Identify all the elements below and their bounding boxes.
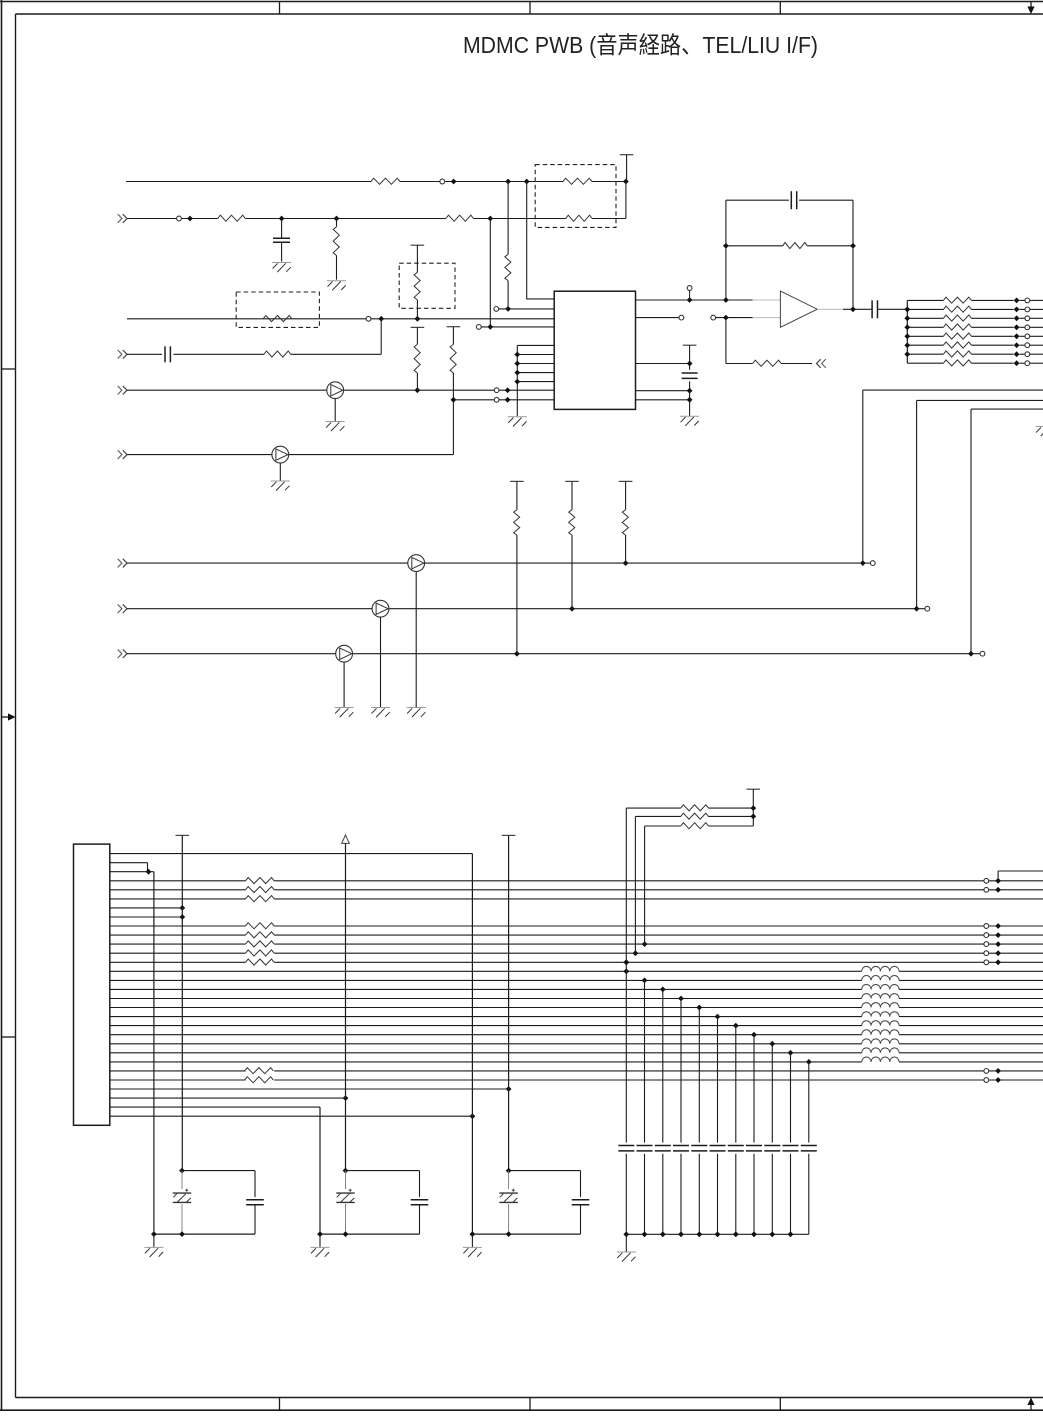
junction out1 / feedback xyxy=(723,297,729,303)
junction cap bus 1 xyxy=(623,1231,629,1237)
capacitor C8 drop xyxy=(637,1145,653,1147)
junction row10 right xyxy=(995,932,1001,938)
capacitor C10 drop xyxy=(673,1145,689,1147)
pad circle row25 xyxy=(984,1069,989,1074)
junction bank row 6 xyxy=(1014,342,1020,348)
capacitor C22 electrolytic sub3 xyxy=(508,1171,510,1189)
resistor R38 in riser1 xyxy=(505,254,511,280)
junction row18 / cap drop xyxy=(696,1005,702,1011)
wire row28 xyxy=(110,1097,346,1099)
resistor R8 vertical xyxy=(416,245,418,272)
power terminal pull-up R23 xyxy=(565,480,579,482)
wire bank row 3 xyxy=(907,317,943,319)
wire pull common xyxy=(752,789,754,826)
junction row27 / rail F xyxy=(506,1086,512,1092)
junction bank row 7 xyxy=(1014,351,1020,357)
resistor R25 row4 xyxy=(246,878,275,884)
wire pin2 line xyxy=(499,308,555,310)
wire row12 xyxy=(110,952,246,954)
resistor R5 in DB1 xyxy=(563,178,592,184)
pad circle opamp minus xyxy=(711,315,716,320)
ground below Q2 xyxy=(279,463,281,481)
wire sub3 bottom line xyxy=(472,1233,580,1235)
junction bus row 3 xyxy=(904,315,910,321)
resistor R2 on wire B xyxy=(218,215,246,221)
resistor R36 xyxy=(681,813,709,819)
junction bank row 4 xyxy=(1014,324,1020,330)
connector CN1 body xyxy=(74,844,110,1125)
pad circle out2 stub xyxy=(679,315,684,320)
junction pin4 / riser xyxy=(487,324,493,330)
junction cluster 4 xyxy=(514,370,520,376)
junction row20 / cap drop xyxy=(733,1023,739,1029)
junction sub1 bottom left xyxy=(151,1231,157,1237)
op-amp U2 xyxy=(780,291,817,327)
pad circle row10 xyxy=(984,933,989,938)
pad circle G corner xyxy=(870,561,875,566)
junction H corner xyxy=(914,606,920,612)
junction row24 / cap drop xyxy=(806,1059,812,1065)
pad circle on wire E xyxy=(494,388,499,393)
resistor R14 bank xyxy=(943,297,971,303)
junction bus row 2 xyxy=(904,307,910,313)
pad circle on wire B xyxy=(177,216,182,221)
wire row1 (rail A feed) xyxy=(110,853,473,855)
wire row3 stub xyxy=(110,871,154,873)
pad circle bank row 5 xyxy=(1025,334,1030,339)
buffer Q5 on wire I xyxy=(336,645,353,662)
junction wire A / riser1 xyxy=(505,179,511,185)
junction H / pullup xyxy=(569,606,575,612)
junction row22 / cap drop xyxy=(769,1041,775,1047)
resistor R11 vertical to wire F xyxy=(447,326,461,328)
input chevron wire H xyxy=(118,604,122,613)
ferrite bead FB4 row17 xyxy=(862,994,899,999)
buffer Q2 on wire F xyxy=(272,446,289,463)
wire net G xyxy=(127,562,408,564)
junction wire F corner xyxy=(451,397,457,403)
ground GND-U1L xyxy=(508,416,527,418)
wire drop3 (x644) xyxy=(644,826,646,944)
wire row15 xyxy=(110,979,862,981)
junction pull row1 xyxy=(750,805,756,811)
wire bank row 8 xyxy=(907,362,943,364)
junction cap bus 8 xyxy=(751,1231,757,1237)
resistor R17 bank xyxy=(943,324,971,330)
resistor R35 xyxy=(681,805,709,811)
capacitor C12 drop xyxy=(710,1145,726,1147)
wire pull row1 xyxy=(626,807,681,809)
ferrite bead FB1 row14 xyxy=(862,966,899,971)
junction feedback mid left xyxy=(723,243,729,249)
wire cap drop 5 xyxy=(698,1008,700,1143)
junction row4 xyxy=(995,878,1001,884)
pad circle I corner xyxy=(980,651,985,656)
junction row25 right xyxy=(995,1068,1001,1074)
junction wire A / net V1 xyxy=(623,179,629,185)
junction cap bus 3 xyxy=(660,1231,666,1237)
resistor R19 bank xyxy=(943,342,971,348)
wire pin4 line xyxy=(481,326,554,328)
capacitor C6 output series xyxy=(871,300,873,318)
wire drop1 (x626) xyxy=(625,808,627,971)
junction wire C / riser D xyxy=(378,316,384,322)
junction row11 / drop3 xyxy=(642,941,648,947)
dashed box DB2 xyxy=(399,263,455,308)
wire row4 xyxy=(110,880,246,882)
wire row2 xyxy=(110,862,148,864)
pad circle row5 xyxy=(984,887,989,892)
border zone tick top 3 xyxy=(779,2,781,15)
wire IC ground bus left xyxy=(516,345,518,416)
resistor R7 on wire C xyxy=(263,316,292,322)
junction row5 xyxy=(995,887,1001,893)
wire pin cluster line 1 xyxy=(517,344,554,346)
capacitor C4 on V2 xyxy=(682,372,698,374)
wire row26 xyxy=(110,1079,246,1081)
wire sub1 top line xyxy=(182,1170,255,1172)
resistor R10 vertical to wire E xyxy=(411,326,425,328)
junction row26 right xyxy=(995,1077,1001,1083)
resistor R13 divider xyxy=(753,360,782,366)
wire row9 xyxy=(110,925,246,927)
wire rail A (gnd1) xyxy=(153,872,155,1234)
wire net H xyxy=(127,608,372,610)
wire row18 xyxy=(110,1007,862,1009)
wire bank row 4 xyxy=(907,326,943,328)
pad circle row9 xyxy=(984,924,989,929)
junction row13 / drop1 xyxy=(623,959,629,965)
border inner frame xyxy=(16,13,1043,15)
capacitor C23 ceramic sub3 xyxy=(572,1199,590,1201)
junction bank row 8 xyxy=(1014,360,1020,366)
junction cap bus 5 xyxy=(696,1231,702,1237)
ground partial right edge xyxy=(1036,426,1043,428)
wire feedback right vertical xyxy=(852,200,854,309)
wire cap drop 4 xyxy=(680,999,682,1143)
ferrite bead FB8 row21 xyxy=(862,1030,899,1035)
wire net F segments xyxy=(127,454,272,456)
junction row19 / cap drop xyxy=(715,1014,721,1020)
junction row7 / rail B xyxy=(179,905,185,911)
power terminal rail F xyxy=(502,834,516,836)
pad circle bank row 2 xyxy=(1025,307,1030,312)
pad circle bank row 1 xyxy=(1025,298,1030,303)
junction bank row 1 xyxy=(1014,298,1020,304)
wire row11 xyxy=(110,943,246,945)
ground GND sub1 xyxy=(153,1234,155,1247)
junction pin2 / riser1 xyxy=(505,306,511,312)
border zone tick top 1 xyxy=(279,2,281,15)
input chevron wire B xyxy=(118,214,122,223)
capacitor C17 drop xyxy=(801,1145,817,1147)
wire pull row2 xyxy=(635,815,680,817)
border zone tick bottom 3 xyxy=(779,1398,781,1411)
resistor R9 on wire D xyxy=(264,351,291,357)
wire bank row 7 xyxy=(907,353,943,355)
junction cap bus 2 xyxy=(642,1231,648,1237)
border zone tick bottom 2 xyxy=(529,1398,531,1411)
input chevron wire E xyxy=(118,386,122,395)
wire drop2 (x635) xyxy=(634,816,636,953)
junction bank row 2 xyxy=(1014,307,1020,313)
junction pull row2 xyxy=(750,814,756,820)
ferrite bead FB5 row18 xyxy=(862,1003,899,1008)
wire net E segments xyxy=(127,389,327,391)
resistor R34 row26 xyxy=(245,1077,274,1083)
pad circle on wire C xyxy=(366,316,371,321)
wire row24 xyxy=(110,1061,862,1063)
pad circle bank row 8 xyxy=(1025,361,1030,366)
wire row10 xyxy=(110,934,246,936)
junction output / feedback xyxy=(850,306,856,312)
junction row15 / cap drop xyxy=(642,978,648,984)
border zone arrow top-right xyxy=(1030,2,1032,10)
resistor R6 in DB1 xyxy=(566,215,592,221)
junction cap bus 4 xyxy=(678,1231,684,1237)
wire net V2 vertical xyxy=(689,345,691,370)
resistor R20 bank xyxy=(943,351,971,357)
wire row8 xyxy=(110,916,183,918)
resistor R22 pull-up xyxy=(516,481,518,509)
resistor R28 row9 xyxy=(246,923,275,929)
wire net A segments xyxy=(126,181,371,183)
junction row28 / rail E xyxy=(343,1095,349,1101)
power flag delta rail E xyxy=(342,835,350,844)
capacitor C20 electrolytic sub2 xyxy=(345,1171,347,1189)
capacitor C5 feedback xyxy=(790,191,792,209)
junction sub2 top xyxy=(343,1168,349,1174)
ground GND sub2 xyxy=(319,1234,321,1247)
ground GND sub3 xyxy=(471,1234,473,1247)
border outer frame xyxy=(0,1,1043,3)
wire cap drop 2 xyxy=(644,980,646,1142)
buffer Q1 on wire E xyxy=(327,382,344,399)
capacitor C16 drop xyxy=(783,1145,799,1147)
capacitor C13 drop xyxy=(728,1145,744,1147)
junction bank row 3 xyxy=(1014,315,1020,321)
wire pin cluster line 4 xyxy=(517,372,554,374)
capacitor C11 drop xyxy=(691,1145,707,1147)
border zone arrow bottom-right xyxy=(1030,1403,1032,1410)
resistor R33 row25 xyxy=(245,1068,274,1074)
junction I / pullup xyxy=(514,651,520,657)
junction on wire E at x507 xyxy=(505,387,511,393)
wire U1 pin r4 xyxy=(636,390,690,392)
junction G corner xyxy=(860,560,866,566)
junction wire A / riser2 xyxy=(524,179,530,185)
pad circle pin2 xyxy=(494,307,499,312)
junction row12 / drop2 xyxy=(633,950,639,956)
wire pull row3 xyxy=(645,825,681,827)
wire cap drop 6 xyxy=(717,1017,719,1143)
junction bus row 6 xyxy=(904,342,910,348)
junction on wire A at x453 xyxy=(451,179,457,185)
wire row30 xyxy=(110,1115,473,1117)
junction sub3 bottom mid xyxy=(506,1231,512,1237)
resistor R31 row12 xyxy=(246,950,275,956)
junction row17 / cap drop xyxy=(678,996,684,1002)
resistor R3 shunt xyxy=(336,219,338,227)
wire rail E (supply2) xyxy=(345,843,347,1170)
capacitor C14 drop xyxy=(746,1145,762,1147)
wire sub2 bottom line xyxy=(320,1233,420,1235)
wire row14 xyxy=(110,970,862,972)
power terminal P4 xyxy=(747,788,761,790)
wire cap drop 8 xyxy=(753,1035,755,1143)
junction row21 / cap drop xyxy=(751,1032,757,1038)
wire row23 xyxy=(110,1052,862,1054)
wire row25 xyxy=(110,1070,246,1072)
ground below Q1 xyxy=(334,399,336,421)
ferrite bead FB3 row16 xyxy=(862,984,899,989)
ground below R3 xyxy=(327,280,346,282)
resistor R12 feedback xyxy=(783,243,807,249)
power terminal P3 xyxy=(683,344,697,346)
junction row11 right xyxy=(995,941,1001,947)
junction row13 right xyxy=(995,959,1001,965)
junction bus output row xyxy=(904,307,910,313)
pad circle bank row 4 xyxy=(1025,325,1030,330)
capacitor C9 drop xyxy=(655,1145,671,1147)
border zone arrow left xyxy=(2,716,12,718)
power terminal rail B xyxy=(176,834,190,836)
wire pin cluster line 3 xyxy=(517,363,554,365)
wire row4 branch up xyxy=(997,871,999,881)
pad circle row4 xyxy=(984,878,989,883)
junction sub3 bottom left xyxy=(470,1231,476,1237)
power terminal pull-up R22 xyxy=(510,480,524,482)
pad circle H corner xyxy=(925,606,930,611)
junction sub1 bottom mid xyxy=(179,1231,185,1237)
ground below Q4 xyxy=(380,617,382,707)
ferrite bead FB7 row20 xyxy=(862,1021,899,1026)
wire opamp output xyxy=(817,308,843,310)
junction cap bus 6 xyxy=(715,1231,721,1237)
capacitor C18 electrolytic sub1 xyxy=(181,1171,183,1189)
pad circle on wire F line xyxy=(494,397,499,402)
border zone tick bottom 1 xyxy=(279,1398,281,1411)
wire riser2 A to pin1 xyxy=(527,182,555,299)
pad circle bank row 7 xyxy=(1025,352,1030,357)
wire net B segments xyxy=(127,218,177,220)
junction bus row 7 xyxy=(904,351,910,357)
junction V2 r3 xyxy=(687,361,693,367)
wire pin cluster line 2 xyxy=(517,354,554,356)
wire cap drop 3 xyxy=(662,989,664,1142)
wire row5 xyxy=(110,889,246,891)
wire U1 out1 to opamp plus xyxy=(636,299,753,301)
junction wire B / C2 xyxy=(279,216,285,222)
junction minus / divider xyxy=(723,315,729,321)
wire cap drop 7 xyxy=(735,1026,737,1143)
wire U1 pin r3 xyxy=(636,363,690,365)
wire feedback left vertical xyxy=(725,200,727,300)
output chevron X1 xyxy=(822,359,826,368)
junction feedback mid right xyxy=(850,243,856,249)
buffer Q4 on wire H xyxy=(372,600,389,617)
capacitor C21 ceramic sub2 xyxy=(411,1199,429,1201)
junction row12 right xyxy=(995,950,1001,956)
resistor R1 on wire A xyxy=(371,178,400,184)
wire bank row 5 xyxy=(907,335,943,337)
wire cap drop 9 xyxy=(771,1044,773,1143)
pad circle row12 xyxy=(984,951,989,956)
wire row13 xyxy=(110,961,246,963)
ground below Q3 xyxy=(415,572,417,708)
wire cap drop 10 xyxy=(790,1053,792,1143)
pad circle row13 xyxy=(984,960,989,965)
wire row27 xyxy=(110,1088,509,1090)
pad circle stub above node xyxy=(687,286,692,291)
wire sub1 bottom line xyxy=(154,1233,255,1235)
resistor R27 row6 xyxy=(246,896,275,902)
resistor R18 bank xyxy=(943,333,971,339)
junction wire B / R3 xyxy=(334,216,340,222)
wire riser B to pin4 xyxy=(489,219,491,327)
wire net D segments xyxy=(127,353,162,355)
dashed box DB3 xyxy=(236,292,319,327)
capacitor C7 drop xyxy=(618,1145,634,1147)
ground GND cap bus xyxy=(625,1234,627,1251)
wire row21 xyxy=(110,1034,862,1036)
wire net I xyxy=(127,653,336,655)
capacitor C2 shunt xyxy=(281,219,283,239)
junction cluster 5 xyxy=(514,379,520,385)
wire row7 xyxy=(110,907,183,909)
wire bank bus vertical xyxy=(906,300,908,363)
resistor R16 bank xyxy=(943,315,971,321)
junction row14 / cap drop xyxy=(623,968,629,974)
wire rail F (supply3) xyxy=(508,835,510,1170)
resistor R32 row13 xyxy=(246,959,275,965)
resistor R37 xyxy=(681,823,709,829)
wire U1 out2 stub xyxy=(636,317,680,319)
ground below C2 xyxy=(272,262,291,264)
resistor R4 on wire B xyxy=(446,215,474,221)
junction on wire B at x190 xyxy=(187,216,193,222)
junction out1 node xyxy=(687,297,693,303)
wire feedback top xyxy=(726,199,789,201)
junction sub2 bottom mid xyxy=(343,1231,349,1237)
input chevron wire F xyxy=(118,450,122,459)
wire rail C (gnd3) xyxy=(471,854,473,1235)
capacitor C3 series on wire D xyxy=(164,346,166,362)
capacitor C19 ceramic sub1 xyxy=(246,1199,264,1201)
junction wire B / riser pin4 xyxy=(487,216,493,222)
pad circle row11 xyxy=(984,942,989,947)
junction sub2 bottom left xyxy=(317,1231,323,1237)
pad circle pin4 xyxy=(476,325,481,330)
input chevron wire G xyxy=(118,559,122,568)
junction row30 / rail C xyxy=(470,1113,476,1119)
wire bank row 6 xyxy=(907,344,943,346)
buffer Q3 on wire G xyxy=(408,555,425,572)
wire cap bus bottom xyxy=(626,1233,809,1235)
IC U1 body xyxy=(554,291,635,409)
junction cap bus 7 xyxy=(733,1231,739,1237)
wire rail B (supply1) xyxy=(181,835,183,1170)
ferrite bead FB9 row22 xyxy=(862,1039,899,1044)
junction row2/row3 xyxy=(146,869,152,875)
wire feedback mid xyxy=(726,245,783,247)
wire pin cluster line 5 xyxy=(517,381,554,383)
junction G / pullup xyxy=(623,560,629,566)
ferrite bead FB11 row24 xyxy=(862,1057,899,1062)
capacitor C15 drop xyxy=(764,1145,780,1147)
wire sub2 top line xyxy=(346,1170,420,1172)
junction cap bus 10 xyxy=(788,1231,794,1237)
